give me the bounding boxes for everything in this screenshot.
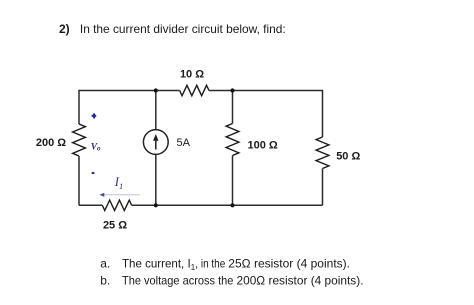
svg-text:5A: 5A <box>177 137 191 149</box>
svg-text:In the current divider circuit: In the current divider circuit below, fi… <box>80 22 286 36</box>
svg-text:The current, I: The current, I <box>122 256 191 270</box>
svg-text:100 Ω: 100 Ω <box>248 139 278 151</box>
resistor R1 10 Ohm (top wire) <box>180 85 209 95</box>
wire right rail upper <box>322 90 324 137</box>
wire left rail lower <box>78 156 80 205</box>
wire bottom-left segment <box>79 204 102 206</box>
svg-text:The voltage across the: The voltage across the <box>122 274 234 288</box>
current direction arrow <box>99 193 139 197</box>
svg-text:2): 2) <box>59 22 70 36</box>
junction node bottom at 100 Ohm branch <box>230 203 234 207</box>
svg-text:I1: I1 <box>114 175 123 191</box>
question line a <box>100 256 350 272</box>
wire top-left segment <box>79 90 180 92</box>
svg-text:10 Ω: 10 Ω <box>180 69 204 81</box>
wire right rail lower <box>322 169 324 206</box>
polarity plus sign <box>92 113 97 118</box>
resistor R4 50 Ohm (right rail) <box>316 137 329 168</box>
svg-text:200 Ω: 200 Ω <box>36 137 66 149</box>
wire bottom-right segment <box>132 204 323 206</box>
junction node bottom at 5A branch <box>154 203 158 207</box>
svg-text:b.: b. <box>100 274 110 288</box>
wire 5A branch lower <box>155 154 157 205</box>
resistor R3 100 Ohm (middle branch) <box>226 124 239 156</box>
question line b <box>100 274 363 288</box>
title text <box>59 22 286 36</box>
polarity minus sign <box>92 172 95 174</box>
svg-text:50 Ω: 50 Ω <box>336 150 360 162</box>
svg-text:200Ω resistor (4 points).: 200Ω resistor (4 points). <box>237 274 364 288</box>
current source I1 5A <box>143 130 168 155</box>
resistor R2 200 Ohm (left rail) <box>73 124 86 156</box>
svg-text:25 Ω: 25 Ω <box>103 220 127 232</box>
wire 5A branch upper <box>155 90 157 130</box>
resistor R5 25 Ohm (bottom wire) <box>102 200 131 210</box>
junction node top at 5A branch <box>154 88 158 92</box>
wire 100 Ohm branch lower <box>232 156 234 206</box>
svg-text:, in the: , in the <box>195 256 225 270</box>
wire left rail upper <box>78 90 80 124</box>
wire top-right segment <box>209 90 323 92</box>
junction node top at 100 Ohm branch <box>230 88 234 92</box>
svg-text:a.: a. <box>100 256 110 270</box>
wire 100 Ohm branch upper <box>232 90 234 124</box>
svg-text:25Ω resistor (4 points).: 25Ω resistor (4 points). <box>228 256 350 270</box>
svg-text:Vo: Vo <box>91 143 101 153</box>
